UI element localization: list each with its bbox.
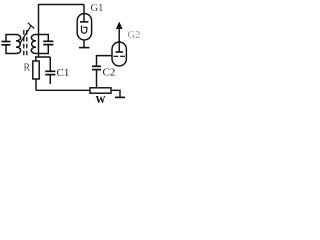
svg-text:W: W [96,95,106,106]
svg-text:R: R [24,63,31,74]
svg-text:G2: G2 [128,30,141,41]
svg-text:C1: C1 [57,67,70,79]
svg-text:G1: G1 [91,3,104,14]
svg-text:C2: C2 [103,67,116,79]
